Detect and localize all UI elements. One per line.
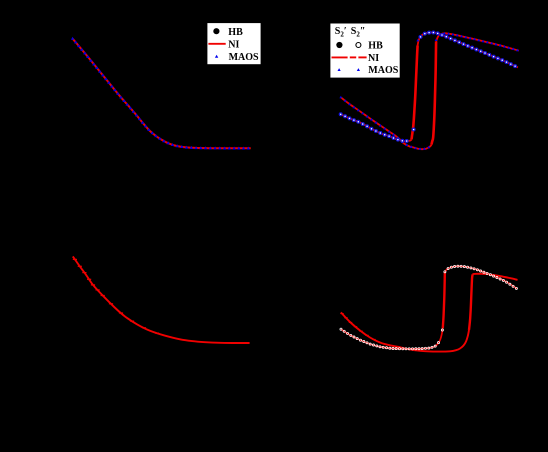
curve: bottom-right S2doubleprime jump (left red vertical) [443,272,445,328]
curve: top-right S2prime top/right branch [436,33,519,50]
legend HB black circle [213,28,219,34]
markers: top-right S2doubleprime open circles (white face, blue edge) [339,31,516,142]
curve: top-right S2prime jump (right red vertical) [432,42,437,145]
markers: bottom-right HB tick marks on S2prime curve [340,313,375,340]
markers: bottom-left HB tick marks on curve [73,259,159,334]
legend MAOS blue triangle [215,55,218,58]
svg-text:NI: NI [368,53,379,64]
curve: top-left NI red line [73,39,251,149]
legend MAOS second triangle [357,68,360,71]
curve: bottom-left NI red line [73,256,250,343]
legend NI solid red segment [332,56,348,58]
markers: bottom-right S2doubleprime white open circles [340,265,518,350]
curve: bottom-right S2doubleprime arc and right branch [445,266,517,289]
legend box top-left plot [207,23,260,64]
legend HB filled circle [336,42,342,48]
curve: top-right S2doubleprime arc and right branch [418,32,518,67]
markers: top-left MAOS blue triangles [71,37,250,150]
svg-text:MAOS: MAOS [368,65,398,76]
markers: top-right S2prime blue triangles [339,32,519,150]
curve: bottom-right S2prime NI red line (left branch) [341,312,469,351]
legend NI red line [208,43,225,45]
svg-text:HB: HB [228,27,243,38]
svg-text:HB: HB [368,41,383,52]
legend NI dash-dot red segment [350,56,356,58]
legend MAOS filled triangle [338,68,341,71]
legend box top-right plot [330,24,399,78]
svg-text:NI: NI [228,39,239,50]
curve: bottom-right S2prime right branch [473,274,518,280]
curve: top-right S2doubleprime NI red line (left branch) [341,114,412,141]
curve: top-right S2doubleprime jump (left red vertical) [412,46,418,140]
curve: bottom-right S2prime jump (right red vertical) [469,274,473,330]
curve: bottom-right S2doubleprime NI red line (left branch) [341,328,443,349]
legend HB open circle [356,43,361,48]
svg-text:MAOS: MAOS [229,52,259,63]
curve: top-right S2prime NI red line (left branch) [341,97,432,149]
